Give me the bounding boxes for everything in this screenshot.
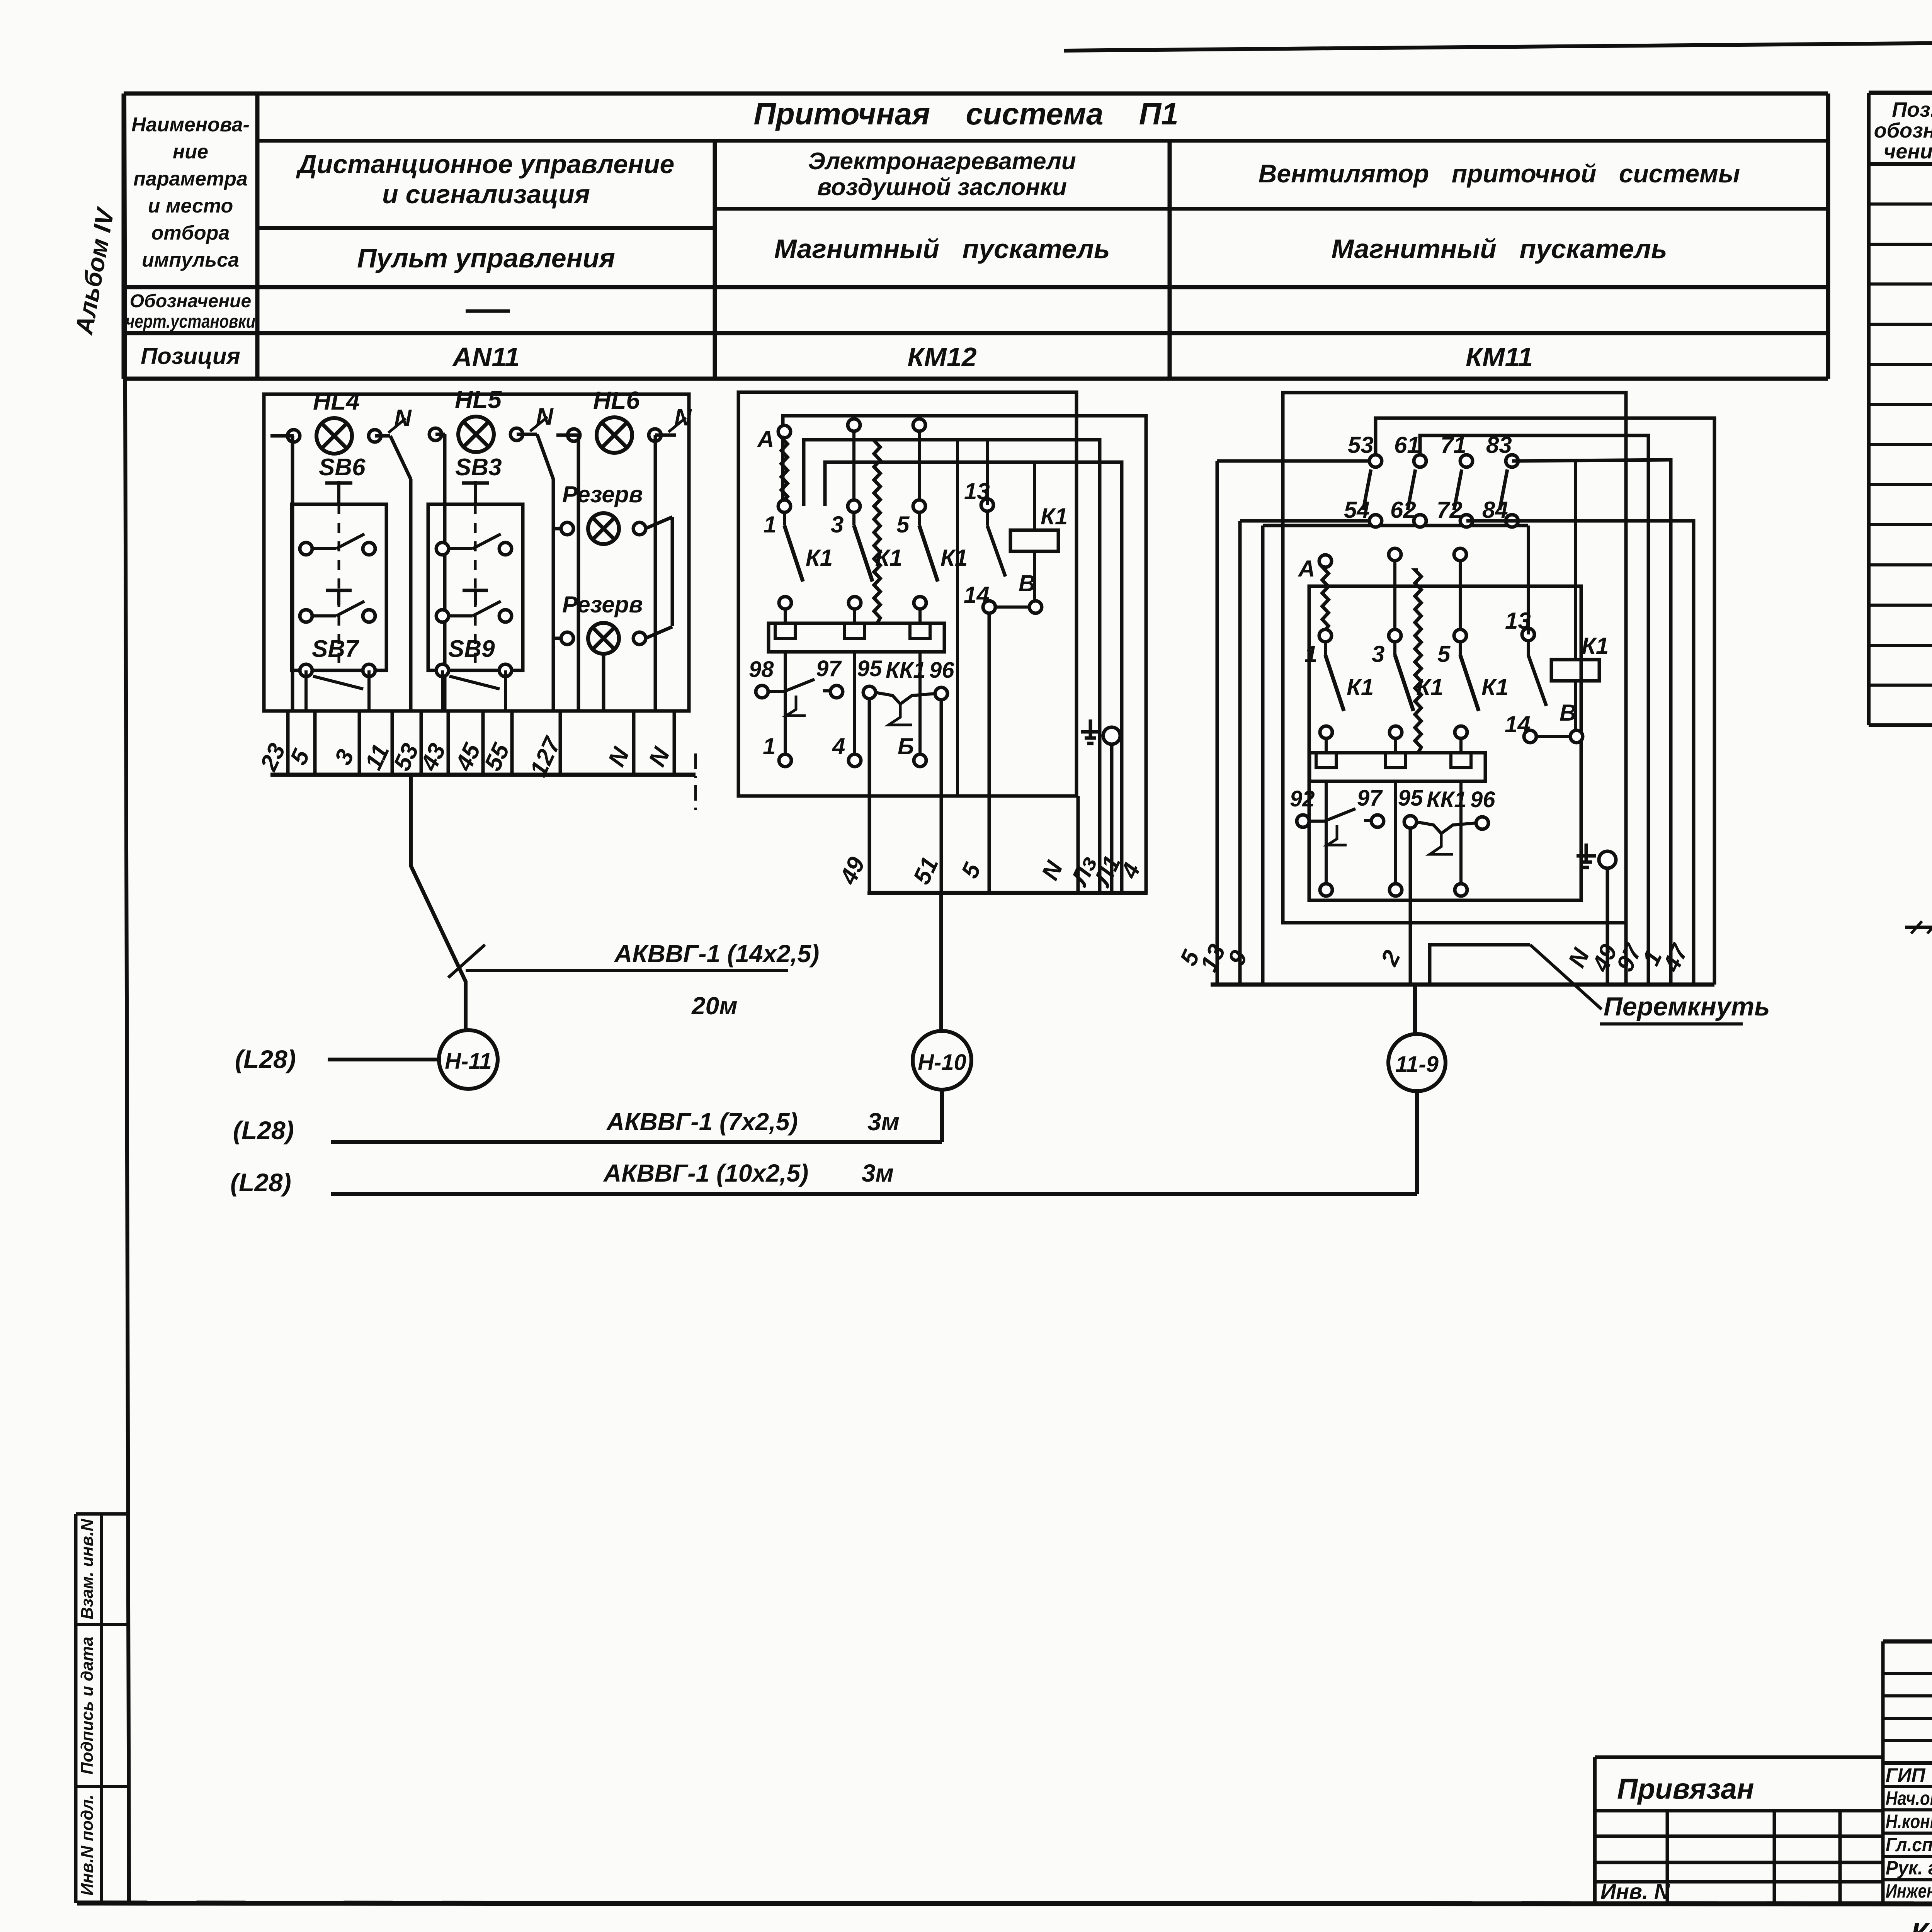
svg-text:20м: 20м [691,992,738,1020]
svg-text:HL5: HL5 [455,386,502,413]
svg-text:КМ12: КМ12 [907,342,976,372]
svg-text:А: А [1298,556,1315,582]
svg-text:1: 1 [764,512,776,537]
svg-text:Резерв: Резерв [562,481,643,507]
svg-text:К1: К1 [1041,503,1068,529]
svg-text:97: 97 [1357,786,1383,811]
svg-text:Вентилятор приточной систе: Вентилятор приточной системы [1259,159,1740,188]
svg-text:обозна-: обозна- [1874,119,1932,142]
svg-text:Резерв: Резерв [562,592,643,617]
svg-text:В: В [1019,570,1035,596]
svg-text:Инв.N подл.: Инв.N подл. [78,1794,97,1896]
svg-text:Н-10: Н-10 [918,1050,966,1075]
svg-text:Инв. N: Инв. N [1600,1879,1670,1903]
svg-text:КК1: КК1 [1427,787,1467,812]
svg-text:72: 72 [1437,497,1463,523]
svg-text:14: 14 [964,582,990,608]
svg-text:Позиция: Позиция [141,343,240,369]
svg-text:В: В [1560,700,1576,726]
svg-text:1: 1 [1304,641,1317,667]
svg-text:Рук. гр.: Рук. гр. [1886,1857,1932,1879]
svg-text:К1: К1 [1347,674,1374,700]
svg-text:97: 97 [816,656,842,681]
svg-text:95: 95 [857,656,882,681]
svg-text:3м: 3м [862,1159,894,1187]
svg-text:Обозначение: Обозначение [130,291,251,311]
svg-text:отбора: отбора [151,222,230,244]
svg-text:N: N [394,405,412,432]
svg-text:Электронагреватели: Электронагреватели [808,148,1076,175]
svg-text:95: 95 [1398,786,1423,811]
svg-text:3: 3 [1372,641,1384,667]
svg-text:Инженер: Инженер [1886,1880,1932,1902]
svg-text:АКВВГ-1 (7х2,5): АКВВГ-1 (7х2,5) [606,1108,798,1136]
svg-text:Наименова-: Наименова- [131,114,250,136]
svg-text:AN11: AN11 [452,342,520,372]
svg-text:Приточная система П1: Приточная система П1 [753,97,1178,131]
svg-text:SB9: SB9 [448,636,495,662]
svg-text:Гл.спец: Гл.спец [1886,1834,1932,1855]
svg-text:(L28): (L28) [235,1045,296,1073]
svg-text:К1: К1 [1481,674,1509,700]
svg-text:Н.контр: Н.контр [1886,1811,1932,1832]
svg-text:К1: К1 [806,545,833,571]
svg-text:4: 4 [832,733,845,759]
svg-text:5: 5 [896,512,910,537]
svg-text:SB7: SB7 [312,636,359,662]
svg-text:SB6: SB6 [319,454,366,481]
svg-text:черт.установки: черт.установки [126,311,255,332]
svg-text:54: 54 [1344,497,1370,523]
svg-text:КМ11: КМ11 [1466,342,1533,372]
svg-text:(L28): (L28) [233,1116,294,1145]
svg-text:Взам. инв.N: Взам. инв.N [78,1519,97,1619]
svg-text:3: 3 [831,512,844,537]
svg-text:N: N [536,403,554,430]
svg-text:параметра: параметра [133,168,248,190]
svg-text:Перемкнуть: Перемкнуть [1604,992,1770,1021]
svg-text:14: 14 [1505,711,1531,737]
svg-text:11-9: 11-9 [1395,1052,1439,1077]
svg-text:Привязан: Привязан [1617,1773,1754,1805]
svg-text:Магнитный пускатель: Магнитный пускатель [1331,234,1667,264]
svg-text:и место: и место [148,195,233,217]
svg-text:Дистанционное управление: Дистанционное управление [296,150,675,179]
svg-text:Н-11: Н-11 [445,1049,492,1074]
svg-text:53: 53 [1348,432,1374,458]
svg-text:3м: 3м [867,1108,900,1136]
svg-text:ние: ние [173,141,208,163]
svg-text:АКВВГ-1 (14х2,5): АКВВГ-1 (14х2,5) [614,940,819,968]
svg-text:61: 61 [1394,432,1420,458]
svg-text:Нач.отд: Нач.отд [1886,1787,1932,1809]
svg-text:96: 96 [1470,787,1495,812]
svg-text:Б: Б [898,733,914,759]
svg-text:N: N [674,404,692,431]
svg-text:84: 84 [1482,497,1508,523]
svg-text:SB3: SB3 [455,454,502,481]
svg-text:Подпись и дата: Подпись и дата [78,1637,97,1775]
svg-text:А: А [757,426,774,452]
svg-text:и сигнализация: и сигнализация [382,180,590,209]
svg-text:1: 1 [763,733,776,759]
svg-text:Копировал: Копировал [1911,1917,1932,1932]
svg-text:К1: К1 [940,545,968,571]
svg-text:чение: чение [1884,140,1932,163]
svg-text:ГИП: ГИП [1886,1764,1926,1786]
svg-text:КК1: КК1 [886,658,926,683]
svg-text:импульса: импульса [142,249,239,271]
svg-text:Пульт управления: Пульт управления [357,243,615,273]
svg-text:воздушной заслонки: воздушной заслонки [817,174,1067,201]
svg-text:96: 96 [929,658,954,683]
svg-text:62: 62 [1390,497,1416,523]
svg-text:АКВВГ-1 (10х2,5): АКВВГ-1 (10х2,5) [603,1159,808,1187]
svg-text:92: 92 [1290,786,1315,811]
svg-text:5: 5 [1437,641,1451,667]
svg-text:(L28): (L28) [230,1168,291,1197]
svg-text:Поз.: Поз. [1892,98,1932,121]
svg-text:98: 98 [749,657,774,682]
svg-text:Магнитный пускатель: Магнитный пускатель [774,234,1110,264]
svg-text:К1: К1 [1582,633,1609,659]
svg-text:HL6: HL6 [593,386,640,414]
svg-text:HL4: HL4 [313,387,360,415]
